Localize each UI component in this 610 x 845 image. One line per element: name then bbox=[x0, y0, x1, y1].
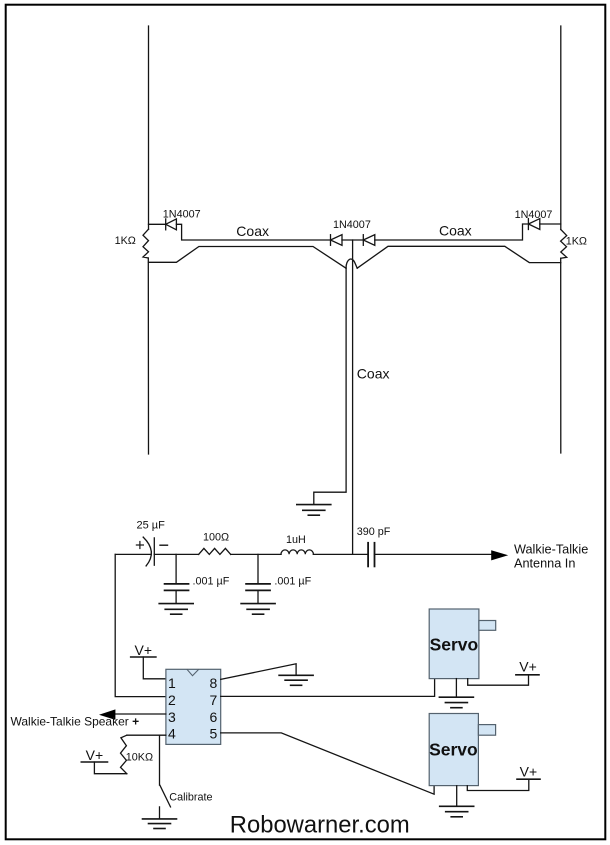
svg-text:1: 1 bbox=[168, 675, 176, 691]
resistor 1K left bbox=[143, 229, 149, 258]
ground servo2 bbox=[440, 806, 474, 817]
svg-text:25 µF: 25 µF bbox=[137, 520, 166, 532]
switch calibrate blade bbox=[160, 785, 171, 807]
servo2 tab bbox=[478, 725, 495, 736]
minus sign 25uF bbox=[160, 544, 168, 546]
svg-text:Coax: Coax bbox=[439, 223, 472, 239]
svg-text:Servo: Servo bbox=[429, 740, 478, 760]
servo1 tab bbox=[479, 621, 496, 631]
resistor 10K bbox=[121, 735, 127, 774]
resistor 1K right bbox=[561, 230, 567, 259]
svg-text:5: 5 bbox=[210, 726, 218, 742]
V+ symbol 10K bbox=[81, 761, 107, 763]
wire IC pin3 speaker bbox=[115, 713, 165, 715]
main filter wire left segment bbox=[115, 553, 151, 555]
capacitor .001uF no1 bbox=[165, 584, 189, 591]
wire diode D1 to left antenna bbox=[149, 223, 166, 225]
IC U1 body bbox=[166, 669, 221, 744]
wire D3 to right step bbox=[375, 224, 529, 240]
svg-text:2: 2 bbox=[168, 692, 176, 708]
diode D4 1N4007 right bbox=[528, 219, 539, 230]
left antenna wire lower bbox=[147, 258, 149, 454]
right antenna wire bbox=[560, 26, 562, 230]
servo2 center pin to ground bbox=[456, 786, 458, 806]
wire 390pF to arrow bbox=[375, 553, 493, 555]
svg-text:.001 µF: .001 µF bbox=[193, 575, 230, 587]
wire IC pin7 to servo1 bbox=[221, 679, 435, 697]
wire hop over center conductor bbox=[346, 259, 357, 268]
ground servo1 bbox=[439, 697, 473, 708]
left antenna wire bbox=[148, 26, 150, 229]
ground .001uF no2 bbox=[241, 604, 275, 615]
svg-text:4: 4 bbox=[168, 726, 176, 742]
svg-text:1N4007: 1N4007 bbox=[515, 209, 553, 221]
right antenna wire lower bbox=[560, 258, 562, 453]
svg-text:390 pF: 390 pF bbox=[357, 526, 391, 538]
V+ symbol IC pin1 bbox=[131, 657, 166, 679]
ground .001uF no1 bbox=[159, 604, 193, 615]
capacitor 25uF polarized bbox=[143, 537, 154, 566]
svg-text:3: 3 bbox=[168, 709, 176, 725]
svg-text:100Ω: 100Ω bbox=[203, 532, 229, 544]
wire D4 to right antenna bbox=[540, 223, 561, 225]
diode D2 1N4007 center-left bbox=[331, 235, 343, 246]
svg-text:1KΩ: 1KΩ bbox=[566, 235, 587, 247]
svg-text:Walkie-Talkie: Walkie-Talkie bbox=[514, 542, 588, 556]
arrow speaker bbox=[99, 709, 115, 720]
V+ symbol servo1 bbox=[516, 674, 539, 676]
ground coax shield bbox=[297, 505, 331, 516]
svg-text:V+: V+ bbox=[520, 764, 538, 780]
coax center conductor vertical bbox=[352, 240, 354, 554]
svg-text:Robowarner.com: Robowarner.com bbox=[230, 811, 410, 838]
capacitor .001uF no1 lead bbox=[175, 554, 177, 583]
wire resistor to inductor bbox=[231, 553, 281, 555]
svg-text:8: 8 bbox=[210, 675, 218, 691]
servo1 body bbox=[429, 609, 479, 679]
svg-text:1N4007: 1N4007 bbox=[163, 208, 201, 220]
coax shield vertical bbox=[314, 268, 346, 504]
capacitor .001uF no2 lead bbox=[257, 554, 259, 583]
servo2 body bbox=[429, 714, 478, 786]
svg-text:Coax: Coax bbox=[236, 223, 269, 239]
wire cap to resistor bbox=[154, 553, 198, 555]
servo2 right pin to V+ bbox=[467, 779, 529, 790]
capacitor .001uF no2 bbox=[246, 584, 270, 591]
svg-text:1uH: 1uH bbox=[286, 534, 306, 546]
wire calibrate vertical bbox=[159, 735, 161, 785]
wire main line to IC pin2 bbox=[115, 554, 166, 696]
wire D1 to top coax bbox=[176, 224, 330, 240]
wire IC pin4 bbox=[127, 734, 166, 736]
inductor 1uH bbox=[281, 550, 313, 554]
ground calibrate bbox=[143, 807, 177, 829]
svg-text:Calibrate: Calibrate bbox=[169, 792, 212, 804]
diode D3 1N4007 center-right bbox=[363, 235, 375, 246]
svg-text:V+: V+ bbox=[135, 642, 153, 658]
svg-text:7: 7 bbox=[210, 692, 218, 708]
wire IC pin8 to ground bbox=[221, 664, 296, 680]
servo1 center pin to ground bbox=[455, 679, 457, 697]
arrow antenna in bbox=[491, 550, 508, 560]
svg-text:.001 µF: .001 µF bbox=[274, 575, 311, 587]
wire IC pin5 to servo2 bbox=[221, 733, 434, 794]
svg-text:Coax: Coax bbox=[357, 366, 390, 382]
wire 10K to V+ bbox=[94, 762, 126, 774]
V+ symbol servo2 bbox=[517, 778, 540, 780]
coax lower wire right bbox=[357, 246, 561, 268]
coax lower wire left bbox=[149, 247, 347, 269]
wire inductor to 390pF bbox=[313, 553, 368, 555]
svg-text:6: 6 bbox=[210, 709, 218, 725]
svg-text:Antenna In: Antenna In bbox=[514, 556, 575, 570]
ground IC pin8 bbox=[279, 675, 313, 685]
resistor 100 ohm bbox=[199, 548, 231, 554]
plus sign 25uF bbox=[136, 542, 143, 549]
svg-text:10KΩ: 10KΩ bbox=[126, 751, 153, 763]
svg-text:1KΩ: 1KΩ bbox=[115, 235, 136, 247]
diode D1 1N4007 left bbox=[166, 219, 177, 230]
svg-text:V+: V+ bbox=[86, 747, 104, 763]
wire between center diodes bbox=[342, 239, 363, 241]
servo1 right pin to V+ bbox=[468, 675, 529, 685]
IC notch bbox=[187, 670, 198, 676]
svg-text:Servo: Servo bbox=[430, 635, 479, 655]
svg-text:Walkie-Talkie Speaker +: Walkie-Talkie Speaker + bbox=[11, 715, 140, 729]
capacitor 390pF bbox=[368, 543, 374, 567]
svg-text:1N4007: 1N4007 bbox=[333, 219, 371, 231]
svg-text:V+: V+ bbox=[519, 659, 537, 675]
